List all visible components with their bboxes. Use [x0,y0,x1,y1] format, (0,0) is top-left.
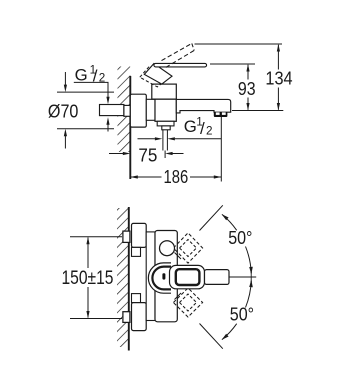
dimension 150±15 [62,237,114,319]
svg-text:Ø70: Ø70 [48,101,79,122]
label 50 deg bottom [230,304,254,324]
shower outlet flange [157,121,174,126]
rotated paddle corner marks [175,253,182,300]
dimension 134 extension line (raised lever) [195,43,283,45]
shower outlet pipe [163,130,168,151]
lever grip (plan) [205,270,230,285]
union extension line bottom [70,318,122,320]
dimension 75 [109,146,184,166]
dimension 186 [130,167,221,187]
inlet nipple G1/2 behind wall [100,105,124,116]
aerator [214,112,228,117]
dimension 93 [238,64,256,111]
union nut [146,99,155,120]
lever paddle (plan) [170,265,205,288]
svg-text:93: 93 [238,79,256,99]
spout [176,99,230,113]
mixer body (side) [155,99,176,121]
shower pipe center extension [164,151,166,159]
svg-text:50°: 50° [228,228,252,248]
dimension G1/2 top leader [74,82,110,131]
dashed paddle rotated up [173,233,202,263]
handle knuckle [144,64,172,85]
escutcheon top (plan) [132,223,147,256]
arc 50 up [222,214,253,274]
dimension G1/2 bottom label [184,116,213,138]
wall face line (bottom view) [128,207,130,351]
dimension G1/2 bottom leader and arrows [138,137,222,140]
handle knuckle dashed (alternate position) [140,66,168,87]
label 50 deg top [228,228,252,248]
in-wall union top [123,231,130,242]
svg-text:2: 2 [206,124,213,137]
mixer body (plan) [155,231,177,322]
dimension Ø70 arrows [64,72,67,149]
pivot mark [162,273,165,279]
escutcheon bottom (plan) [132,294,147,331]
nipple wall flange [124,105,130,116]
wall face line (top view) [129,76,131,179]
neck column [146,232,155,321]
escutcheon (edge view) [130,94,146,127]
inclined line 50 up [200,205,223,230]
dimension Ø70 text [48,101,79,122]
svg-text:/: / [200,119,205,138]
lever raised dashed [162,43,195,67]
temperature knob (circle) [160,241,175,256]
svg-text:186: 186 [164,167,189,187]
lever handle (horizontal) [154,63,207,67]
svg-text:134: 134 [265,69,292,89]
dimension Ø70 extension lines [57,92,114,129]
dimension G1/2 top label [75,64,106,86]
lever hub U-shape [148,263,171,293]
cartridge housing [152,84,177,99]
shower outlet nozzle [162,126,170,130]
dashed paddle rotated down [173,288,202,317]
svg-text:50°: 50° [230,304,254,324]
dimension 134 [265,44,292,111]
in-wall union bottom [123,312,130,323]
svg-text:G: G [75,66,88,85]
svg-text:G: G [184,117,197,136]
wall hatch (top view) [118,67,131,153]
union extension line top [70,236,122,238]
svg-text:75: 75 [138,146,157,166]
dimension 93 extension line (lever top) [210,63,255,65]
aerator center extension [220,117,222,182]
arc 50 down [222,280,253,340]
centerline through escutcheon [130,110,152,112]
swivel axis line [230,272,257,283]
svg-text:150±15: 150±15 [62,268,114,289]
inclined line 50 down [200,324,223,349]
spout axis extension line [232,110,283,112]
wall hatch (bottom view) [117,208,129,347]
